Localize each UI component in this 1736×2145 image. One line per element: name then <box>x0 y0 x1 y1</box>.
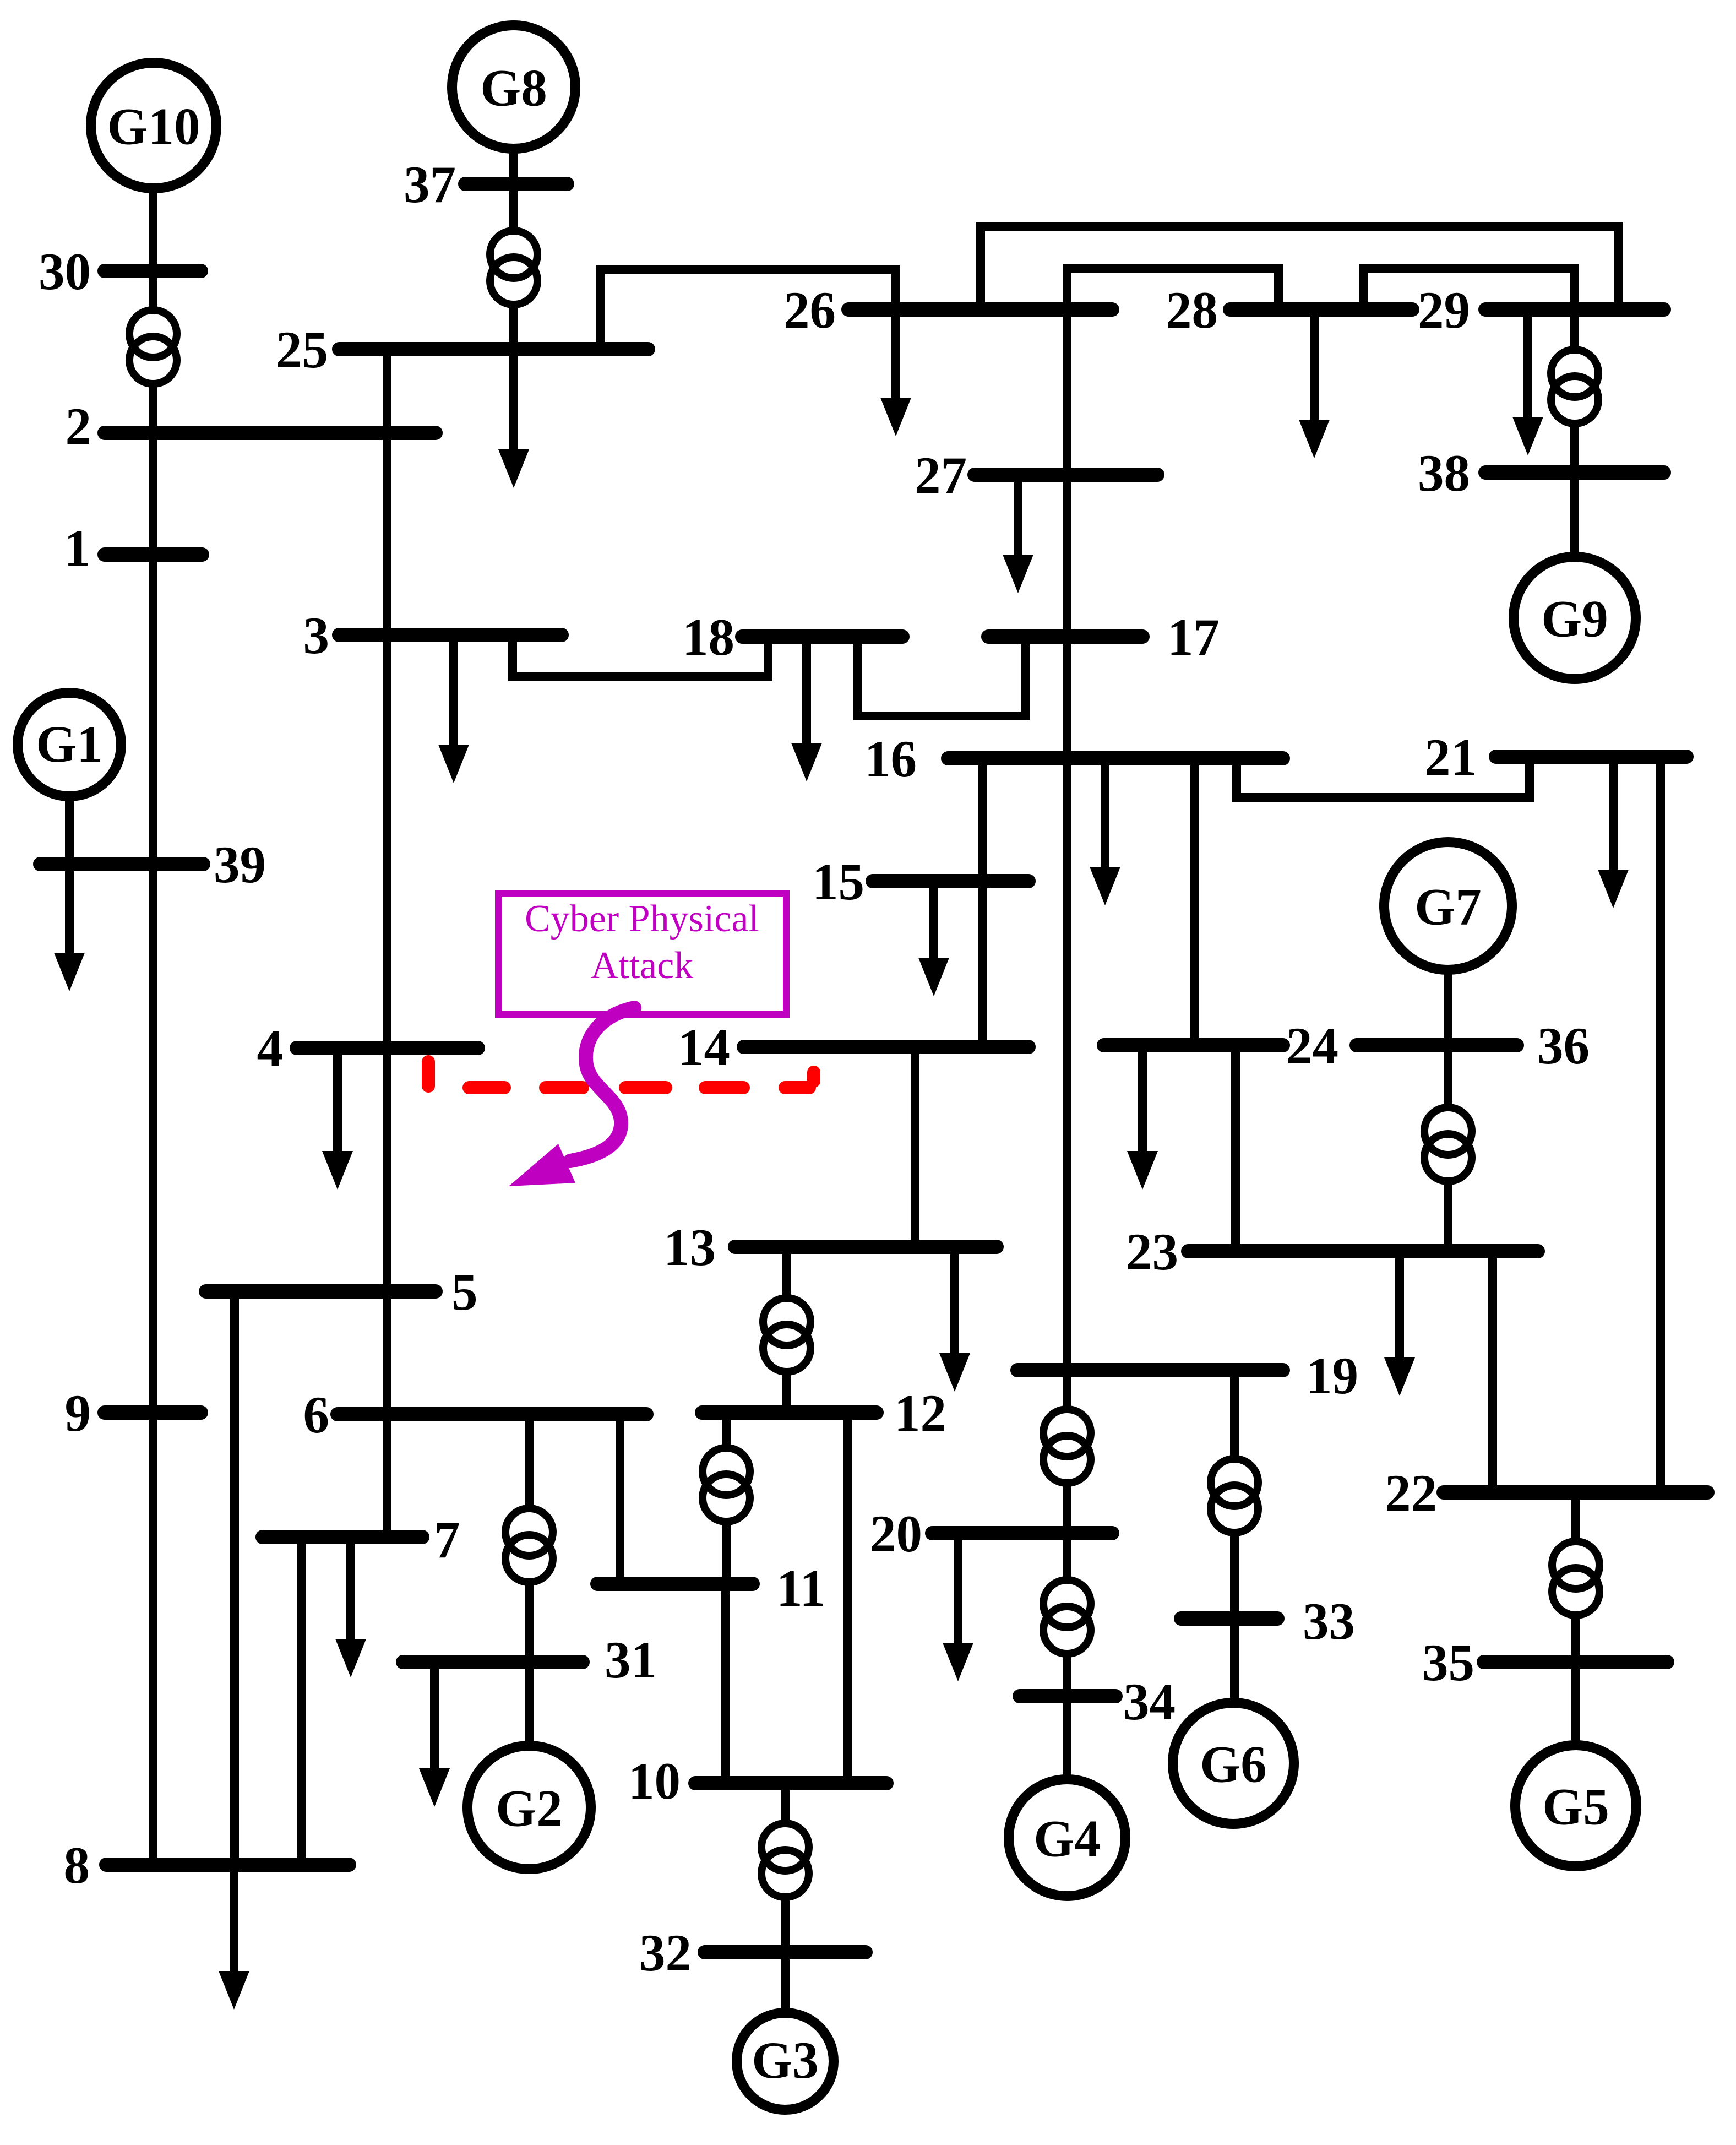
wire transformer to bus 38 <box>1570 421 1579 473</box>
svg-text:G2: G2 <box>496 1779 562 1837</box>
wire 6-11 <box>616 1414 624 1584</box>
svg-text:34: 34 <box>1123 1672 1176 1731</box>
svg-text:1: 1 <box>64 519 91 577</box>
wire transformer to bus 12 <box>782 1370 791 1413</box>
red dashed attack line on 4-14 <box>428 1062 814 1088</box>
svg-text:G4: G4 <box>1033 1809 1100 1867</box>
wire 2-1-39-9-8 left column <box>149 433 157 1865</box>
bus 36 <box>1357 1017 1590 1075</box>
svg-text:G5: G5 <box>1542 1777 1609 1836</box>
transformer 6-31 <box>505 1508 553 1582</box>
svg-text:24: 24 <box>1286 1017 1338 1075</box>
transformer 19-20 <box>1043 1409 1091 1483</box>
bus 28 <box>1166 281 1412 339</box>
svg-text:16: 16 <box>864 730 917 788</box>
bus 19 <box>1017 1346 1358 1405</box>
load arrow bus 13 <box>939 1247 970 1392</box>
wire G8 to bus 37 <box>509 149 518 184</box>
wire 25-2-3-4 column <box>383 349 391 1048</box>
generator G6 <box>1173 1703 1294 1824</box>
wire 17-16 <box>1063 637 1071 758</box>
generator G2 <box>467 1746 591 1869</box>
wire 16-21 <box>1237 757 1530 797</box>
svg-text:11: 11 <box>776 1559 826 1617</box>
load arrow bus 26 <box>880 309 911 436</box>
bus 37 <box>404 155 567 214</box>
bus 34 <box>1020 1672 1176 1731</box>
bus 11 <box>597 1559 826 1617</box>
svg-text:14: 14 <box>678 1018 730 1077</box>
svg-text:G3: G3 <box>752 2031 818 2089</box>
bus 14 <box>678 1018 1028 1077</box>
wire 10 to transformer 32 <box>781 1783 790 1823</box>
svg-text:4: 4 <box>257 1019 284 1078</box>
svg-text:33: 33 <box>1303 1592 1355 1650</box>
load arrow bus 24 <box>1127 1045 1158 1190</box>
svg-text:35: 35 <box>1422 1633 1474 1692</box>
load arrow bus 39 <box>54 864 85 991</box>
wire 26-29 <box>981 227 1618 309</box>
svg-text:13: 13 <box>663 1218 716 1277</box>
wire transformer to bus 11 <box>722 1519 731 1584</box>
wire transformer to bus 25 <box>509 302 518 349</box>
svg-text:Cyber Physical: Cyber Physical <box>525 898 759 940</box>
load arrow bus 23 <box>1384 1251 1415 1396</box>
svg-text:G9: G9 <box>1541 589 1608 648</box>
bus 18 <box>682 608 902 666</box>
transformer 23-36 <box>1424 1107 1472 1181</box>
load arrow bus 15 <box>918 881 949 996</box>
bus 12 <box>702 1384 946 1442</box>
wire G1 to bus 39 <box>65 796 74 864</box>
wire 36 to transformer <box>1444 1045 1452 1107</box>
wire 27-17 <box>1063 475 1071 637</box>
bus 39 <box>40 835 266 894</box>
svg-text:31: 31 <box>605 1631 657 1689</box>
wire 22 to transformer 35 <box>1571 1492 1580 1541</box>
load arrow bus 28 <box>1299 309 1330 458</box>
wire 12-10 <box>843 1413 852 1783</box>
wire transformer to bus 2 <box>149 382 157 433</box>
wire 11-10 <box>721 1584 730 1783</box>
bus 1 <box>64 519 203 577</box>
wire G10 to bus 30 <box>149 188 157 271</box>
transformer 29-38 <box>1551 350 1598 423</box>
bus 23 <box>1126 1223 1538 1281</box>
svg-text:27: 27 <box>915 446 967 504</box>
bus 29 <box>1418 281 1664 339</box>
bus 8 <box>64 1836 350 1894</box>
svg-text:28: 28 <box>1166 281 1218 339</box>
bus 22 <box>1385 1464 1707 1522</box>
svg-text:22: 22 <box>1385 1464 1437 1522</box>
wire 22-23 <box>1488 1251 1497 1492</box>
svg-text:G8: G8 <box>480 58 547 117</box>
cyber physical attack text <box>525 898 759 987</box>
svg-text:G7: G7 <box>1414 877 1481 936</box>
wire 16-24 <box>1190 758 1199 1045</box>
transformer 10-32 <box>761 1823 809 1897</box>
wire 29 to transformer 38 <box>1570 309 1579 350</box>
bus 21 <box>1424 728 1686 786</box>
svg-text:18: 18 <box>682 608 734 666</box>
bus 38 <box>1418 444 1664 502</box>
wire 4-5-6-7 column <box>383 1048 391 1537</box>
bus 4 <box>257 1019 478 1078</box>
wire 37 to transformer <box>509 184 518 231</box>
wire 33 to G6 <box>1230 1619 1239 1704</box>
svg-text:38: 38 <box>1418 444 1470 502</box>
wire 6 to transformer 31 <box>525 1414 534 1508</box>
bus 2 <box>66 397 436 455</box>
wire 12 to transformer 11 <box>722 1413 731 1448</box>
svg-text:Attack: Attack <box>591 944 694 987</box>
wire 38 to G9 <box>1570 473 1579 558</box>
svg-text:20: 20 <box>870 1505 922 1563</box>
svg-text:36: 36 <box>1537 1017 1590 1075</box>
wire 13-14 <box>911 1047 919 1247</box>
bus 24 <box>1104 1017 1338 1075</box>
wire transformer to bus 31 <box>525 1580 534 1662</box>
load arrow bus 3 <box>438 635 469 783</box>
svg-text:10: 10 <box>628 1752 681 1810</box>
svg-text:9: 9 <box>65 1384 91 1442</box>
wire transformer to bus 23 <box>1444 1179 1452 1251</box>
transformer 30-2 <box>129 310 177 384</box>
bus 32 <box>639 1924 866 1982</box>
wire G7 to bus 36 <box>1444 969 1452 1045</box>
bus 13 <box>663 1218 997 1277</box>
load arrow bus 16 <box>1090 758 1120 905</box>
transformer 20-34 <box>1043 1580 1091 1654</box>
transformer 19-33 <box>1211 1459 1258 1533</box>
load arrow bus 29 <box>1512 309 1543 455</box>
wire transformer to bus 32 <box>781 1895 790 1952</box>
wire 19 to transformer 33 <box>1230 1370 1239 1459</box>
wire 32 to G3 <box>781 1952 790 2014</box>
generator G1 <box>18 693 121 796</box>
wire transformer to bus 20 <box>1063 1481 1071 1533</box>
wire transformer to bus 35 <box>1571 1613 1580 1662</box>
bus 10 <box>628 1752 886 1810</box>
wire 3-18 <box>513 635 768 677</box>
bus 31 <box>403 1631 657 1689</box>
svg-text:30: 30 <box>39 242 91 301</box>
bus 7 <box>263 1511 460 1569</box>
load arrow bus 31 <box>419 1662 450 1807</box>
wire 18-17 <box>858 637 1025 716</box>
bus 9 <box>65 1384 202 1442</box>
wire 30 to transformer <box>149 271 157 310</box>
bus 25 <box>276 321 648 379</box>
svg-text:17: 17 <box>1167 608 1220 666</box>
svg-text:37: 37 <box>404 155 456 214</box>
wire 16-15-14 <box>978 758 987 1047</box>
wire 16-19 <box>1063 758 1071 1370</box>
bus 27 <box>915 446 1157 504</box>
svg-text:G6: G6 <box>1200 1735 1266 1793</box>
generator G8 <box>452 25 575 149</box>
bus 35 <box>1422 1633 1667 1692</box>
load arrow bus 20 <box>943 1533 973 1681</box>
wire 13 to transformer <box>782 1247 791 1298</box>
wire 21-22 <box>1656 757 1665 1492</box>
load arrow bus 25 <box>498 349 529 488</box>
wire 7-8 <box>297 1537 306 1865</box>
generator G5 <box>1515 1745 1636 1866</box>
svg-text:32: 32 <box>639 1924 692 1982</box>
svg-text:3: 3 <box>303 606 330 665</box>
svg-text:6: 6 <box>303 1386 330 1444</box>
wire 34 to G4 <box>1063 1696 1071 1780</box>
bus 30 <box>39 242 201 301</box>
svg-text:25: 25 <box>276 321 328 379</box>
wire 25-26 <box>601 270 896 349</box>
svg-text:5: 5 <box>451 1263 478 1321</box>
svg-text:G10: G10 <box>107 97 200 155</box>
transformer 22-35 <box>1552 1541 1599 1615</box>
generator G7 <box>1384 842 1512 970</box>
bus 26 <box>783 281 1112 339</box>
wire transformer to bus 34 <box>1063 1654 1071 1696</box>
transformer 12-11 <box>703 1448 750 1522</box>
svg-text:21: 21 <box>1424 728 1477 786</box>
wire 23-24 <box>1231 1045 1240 1251</box>
svg-text:39: 39 <box>214 835 266 894</box>
svg-text:8: 8 <box>64 1836 90 1894</box>
generator G10 <box>91 63 216 188</box>
load arrow bus 8 <box>219 1865 249 2010</box>
wire 28-29 <box>1363 269 1575 309</box>
bus 20 <box>870 1505 1112 1563</box>
wire 5-8 <box>230 1291 239 1865</box>
svg-text:12: 12 <box>894 1384 946 1442</box>
svg-text:7: 7 <box>434 1511 460 1569</box>
load arrow bus 7 <box>335 1537 366 1677</box>
svg-text:23: 23 <box>1126 1223 1178 1281</box>
cyber physical attack box <box>498 893 786 1014</box>
svg-text:2: 2 <box>66 397 92 455</box>
svg-text:15: 15 <box>812 852 864 911</box>
generator G4 <box>1009 1779 1125 1896</box>
wire 35 to G5 <box>1571 1662 1580 1746</box>
wire transformer to bus 33 <box>1230 1530 1239 1619</box>
svg-text:19: 19 <box>1306 1346 1358 1405</box>
bus 17 <box>988 608 1220 666</box>
svg-text:29: 29 <box>1418 281 1470 339</box>
load arrow bus 21 <box>1598 757 1629 908</box>
load arrow bus 18 <box>791 637 822 781</box>
transformer 37-25 <box>490 231 537 305</box>
wire 20 to transformer 34 <box>1063 1533 1071 1580</box>
bus 15 <box>812 852 1028 911</box>
wire 19 to transformer 20 <box>1063 1370 1071 1409</box>
bus 16 <box>864 730 1283 788</box>
bus 3 <box>303 606 562 665</box>
wire 31 to G2 <box>525 1662 534 1747</box>
bus 33 <box>1181 1592 1355 1650</box>
svg-text:G1: G1 <box>36 715 102 773</box>
svg-text:26: 26 <box>783 281 836 339</box>
bus 6 <box>303 1386 647 1444</box>
load arrow bus 27 <box>1003 475 1033 593</box>
generator G9 <box>1514 557 1636 679</box>
wire 26-28 <box>1067 269 1278 309</box>
generator G3 <box>737 2013 834 2110</box>
attack curved arrow <box>509 1008 634 1186</box>
transformer 13-12 <box>763 1298 810 1372</box>
bus 5 <box>206 1263 478 1321</box>
load arrow bus 4 <box>322 1048 353 1190</box>
wire 26-27 <box>1063 309 1071 475</box>
